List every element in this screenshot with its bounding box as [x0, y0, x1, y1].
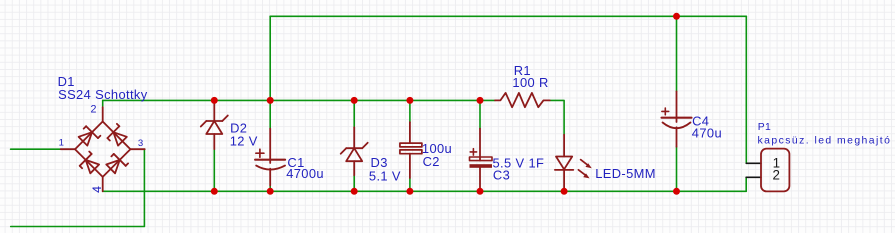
plus sign C3 — [470, 151, 476, 153]
wire right vertical to P1 pin 1 — [745, 16, 747, 163]
LED D4 LED-5MM — [555, 135, 592, 192]
diode D1b top-right (3 to 2) — [105, 124, 128, 147]
wire D2 lower (green part) — [213, 149, 215, 191]
svg-text:C2: C2 — [423, 154, 440, 169]
zener diode D2 — [201, 100, 228, 149]
P1 pin 1 lead — [746, 162, 761, 164]
junction dots top rail — [211, 97, 484, 104]
pin 3 lead — [130, 148, 144, 150]
wire bottom rail (- net) — [103, 190, 747, 192]
capacitor C2 — [400, 122, 422, 178]
wire AC input 1 (left edge to bridge pin 1) — [11, 148, 61, 150]
resistor R1 — [495, 93, 550, 107]
wire C2 upper green — [409, 100, 411, 122]
wire C4 lower green — [676, 147, 678, 192]
svg-text:4700u: 4700u — [286, 166, 324, 181]
connector P1 — [746, 149, 789, 192]
wire C4 upper green — [676, 16, 678, 91]
capacitor C3 (polarized, 5.5V supercap) — [470, 129, 493, 192]
wire riser C1 node to top bypass line — [269, 16, 271, 100]
wire AC input 2 (left edge along bottom, up to bridge pin 3) — [11, 149, 145, 226]
bridge pin numbers — [59, 103, 144, 192]
svg-text:3: 3 — [138, 138, 143, 149]
pin 1 lead — [61, 148, 75, 150]
zener diode D3 — [341, 127, 368, 175]
pin 4 lead — [102, 177, 104, 191]
svg-text:100 R: 100 R — [512, 75, 548, 90]
diode D1a top-left (1 to 2) — [77, 124, 100, 147]
svg-text:C3: C3 — [493, 167, 510, 182]
plus sign C1 — [256, 152, 264, 154]
P1 pin 2 lead — [746, 176, 761, 178]
diamond outline — [75, 122, 130, 177]
plus sign C4 — [662, 110, 669, 112]
diode D1d bottom-right (4 to 3) — [105, 152, 128, 175]
bridge rectifier D1 — [61, 107, 145, 191]
svg-text:kapcsüz. led meghajtó: kapcsüz. led meghajtó — [758, 136, 892, 147]
P1 pin numbers — [773, 156, 781, 183]
svg-text:470u: 470u — [692, 125, 722, 140]
wire top rail (+ net) — [103, 99, 495, 101]
svg-text:SS24 Schottky: SS24 Schottky — [58, 87, 148, 102]
wire C1 lower green — [269, 186, 271, 192]
diode D1c bottom-left (4 to 1) — [77, 152, 100, 175]
wire C1 upper green — [269, 100, 271, 128]
svg-text:1: 1 — [59, 138, 64, 149]
capacitor C4 (polarized) — [662, 91, 692, 146]
svg-text:2: 2 — [773, 167, 780, 182]
svg-text:LED-5MM: LED-5MM — [595, 166, 656, 181]
svg-text:P1: P1 — [758, 122, 771, 133]
wire bridge pin 2 to top rail — [102, 100, 104, 107]
svg-text:5.1 V: 5.1 V — [369, 169, 401, 184]
LED arrows — [578, 160, 591, 179]
wire top bypass line — [270, 15, 746, 17]
wire R1 right to LED top — [550, 100, 564, 134]
P1 box — [761, 149, 789, 192]
svg-text:2: 2 — [91, 103, 97, 115]
wire bottom rail riser to P1 pin 2 — [745, 177, 747, 191]
svg-text:12 V: 12 V — [230, 134, 258, 149]
svg-text:4: 4 — [90, 186, 104, 193]
pin 2 lead — [102, 107, 104, 121]
wire D3 lower green — [353, 175, 355, 191]
junction dot top bypass line at C4 — [673, 13, 680, 20]
capacitor C1 (polarized) — [255, 129, 285, 186]
wire C2 lower green — [409, 178, 411, 191]
wire C3 upper green — [479, 100, 481, 128]
wire D3 upper green — [353, 100, 355, 127]
junction dots bottom rail — [211, 188, 680, 195]
